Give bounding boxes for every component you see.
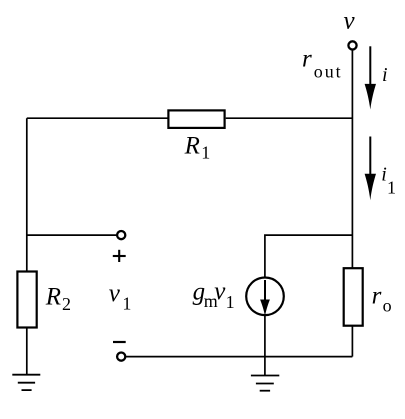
terminal - (open circle) (117, 353, 125, 361)
svg-text:2: 2 (62, 294, 71, 314)
svg-text:v: v (214, 278, 226, 305)
svg-text:v: v (109, 280, 121, 307)
wire: bottom horizontal rail (126, 356, 353, 358)
svg-text:i: i (381, 163, 387, 185)
svg-text:R: R (45, 284, 61, 311)
svg-text:1: 1 (122, 294, 131, 314)
svg-text:1: 1 (226, 292, 235, 312)
svg-text:i: i (382, 64, 388, 86)
current arrow i (365, 46, 376, 109)
minus sign (113, 341, 126, 343)
wire: R1 right lead to right vertical (226, 117, 353, 119)
svg-text:o: o (383, 296, 392, 316)
terminal node v (open circle, top right) (348, 41, 356, 49)
wire: current source bottom to ground through bottom rail (264, 315, 266, 375)
ground (center) (251, 376, 279, 391)
ground (left) (12, 375, 40, 390)
resistor r_o (344, 268, 363, 326)
svg-text:R: R (184, 132, 200, 159)
svg-text:1: 1 (387, 178, 396, 198)
plus sign (113, 250, 126, 262)
svg-text:out: out (314, 61, 343, 81)
terminal + (open circle) (117, 231, 125, 239)
wire: current source top lead up and right to output node (265, 235, 353, 277)
svg-text:r: r (302, 46, 312, 73)
svg-text:v: v (344, 8, 356, 35)
current source arrow (260, 280, 270, 316)
resistor R1 (168, 110, 224, 128)
dependent current source gm*v1 (246, 278, 284, 316)
resistor R2 (17, 272, 36, 328)
wire: left vertical from top-left corner down to R2 (26, 118, 28, 271)
wire: right vertical from terminal down to r_o (351, 51, 353, 268)
svg-text:1: 1 (201, 143, 210, 163)
wire: middle horizontal to + terminal (27, 234, 117, 236)
wire: r_o bottom lead (351, 326, 353, 357)
svg-text:r: r (372, 283, 382, 310)
wire: top horizontal from left corner to R1 left lead (27, 117, 168, 119)
wire: R2 bottom to ground (26, 327, 28, 375)
current arrow i1 (365, 137, 376, 201)
